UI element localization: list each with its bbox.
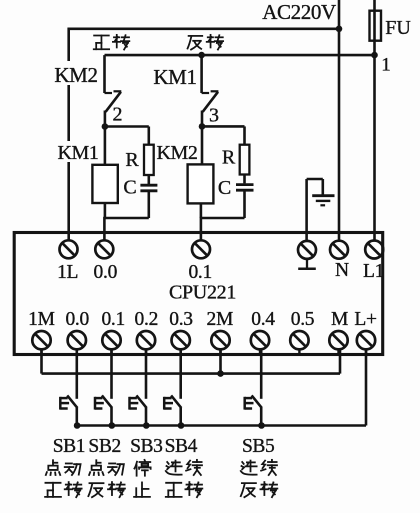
label 止 (stop) under SB3 bbox=[134, 482, 150, 496]
terminal 1L bbox=[60, 240, 78, 258]
wire: drop to output terminal 0.1 bbox=[200, 217, 203, 241]
wire: coil KM1 top lead bbox=[104, 127, 107, 166]
fuse FU bbox=[373, 0, 376, 241]
wire: branch 2 bottom bus bbox=[104, 217, 148, 220]
node: SB4 junction on button bus bbox=[178, 422, 185, 429]
wire: PE bracket drop bbox=[321, 179, 324, 195]
svg-text:SB4: SB4 bbox=[165, 436, 198, 457]
wire: R to C lead bbox=[243, 175, 246, 184]
node: 2M junction on common bus bbox=[219, 349, 222, 374]
svg-text:0.1: 0.1 bbox=[188, 262, 211, 283]
NC contact KM1 (reverse interlock) bbox=[200, 55, 203, 93]
svg-text:KM1: KM1 bbox=[57, 142, 98, 164]
label 正转 (forward) under SB1 bbox=[45, 483, 61, 497]
svg-text:R: R bbox=[125, 149, 139, 171]
svg-text:0.1: 0.1 bbox=[101, 309, 124, 330]
capacitor C (snubber) bottom plate bbox=[140, 189, 157, 192]
ground (earth) symbol bbox=[312, 194, 334, 197]
wire: 1M drop to common bus bbox=[40, 349, 43, 374]
svg-text:L1: L1 bbox=[363, 261, 384, 282]
wire: PE riser bbox=[305, 179, 308, 241]
wire: drop to output terminal 0.0 bbox=[103, 217, 106, 241]
contactor coil KM1 bbox=[92, 165, 117, 203]
resistor R (snubber) bbox=[144, 145, 154, 175]
svg-text:1M: 1M bbox=[28, 309, 55, 330]
capacitor C (snubber) top plate bbox=[140, 184, 157, 187]
terminal N bbox=[330, 241, 348, 259]
terminal 0.1 (output) bbox=[192, 240, 210, 258]
wire: C bottom lead bbox=[148, 191, 151, 218]
wire: horizontal neutral line to 1L bbox=[68, 27, 340, 30]
svg-text:KM2: KM2 bbox=[156, 142, 197, 164]
svg-text:SB5: SB5 bbox=[242, 436, 274, 457]
svg-text:R: R bbox=[222, 147, 236, 169]
svg-text:SB2: SB2 bbox=[88, 436, 120, 457]
node: junction neutral / 1L feed bbox=[336, 26, 343, 33]
wire: junction to RC branch bbox=[202, 125, 245, 128]
label 正转 (forward) under SB4 bbox=[166, 483, 182, 497]
svg-text:CPU221: CPU221 bbox=[169, 282, 236, 304]
wire: branch 3 bottom bus bbox=[201, 217, 245, 220]
push button SB1 bbox=[76, 349, 79, 399]
wire: R lead down bbox=[243, 126, 246, 144]
wire: junction to RC branch bbox=[105, 125, 149, 128]
wire: neutral supply drop from top bbox=[338, 0, 341, 241]
wire: R lead down bbox=[148, 127, 151, 145]
node: junction phase line bbox=[371, 52, 378, 59]
svg-text:0.0: 0.0 bbox=[94, 262, 117, 283]
label 正转 (forward) bbox=[94, 36, 109, 50]
node: SB2 junction on button bus bbox=[109, 422, 116, 429]
svg-text:M: M bbox=[331, 309, 348, 330]
wire: horizontal phase line bbox=[105, 54, 375, 57]
svg-text:3: 3 bbox=[209, 105, 219, 127]
push button SB2 bbox=[110, 349, 113, 399]
wire: R to C lead bbox=[148, 175, 151, 184]
node: junction phase / branch 3 bbox=[198, 52, 205, 59]
svg-text:1: 1 bbox=[381, 55, 391, 76]
svg-text:SB1: SB1 bbox=[53, 436, 85, 457]
label 反转 (reverse) under SB5 bbox=[241, 483, 256, 497]
svg-text:0.5: 0.5 bbox=[291, 309, 314, 330]
svg-text:SB3: SB3 bbox=[130, 436, 162, 457]
wire: L+ drop to button bus bbox=[365, 349, 368, 426]
svg-text:0.4: 0.4 bbox=[251, 309, 275, 330]
wire: coil KM2 top lead bbox=[201, 126, 204, 164]
push button SB4 bbox=[179, 349, 182, 399]
svg-text:C: C bbox=[123, 177, 136, 199]
svg-text:FU: FU bbox=[385, 17, 411, 39]
wire: coil KM2 bottom lead bbox=[200, 203, 203, 218]
wire: PE bracket top bbox=[307, 178, 323, 181]
node: contact 3 output junction bbox=[199, 123, 206, 130]
node: SB3 junction on button bus bbox=[143, 422, 150, 429]
label 停 (stop) under SB3 bbox=[134, 460, 150, 476]
terminal L1 bbox=[365, 241, 383, 259]
label KM1 (coil) bbox=[55, 141, 101, 162]
svg-text:2M: 2M bbox=[207, 309, 234, 330]
label 反转 (reverse) bbox=[188, 36, 203, 50]
label 连续 (continuous) under SB4 bbox=[166, 461, 182, 475]
label 点动 (jog) under SB1 bbox=[46, 460, 60, 475]
wire: 1L vertical feed (left frame) bbox=[67, 28, 70, 241]
contactor coil KM2 bbox=[188, 164, 214, 203]
wire: coil KM1 bottom lead bbox=[104, 203, 107, 218]
NC contact KM2 (forward interlock) bbox=[103, 55, 106, 93]
resistor R (snubber 2) bbox=[240, 145, 250, 175]
svg-text:0.3: 0.3 bbox=[169, 309, 192, 330]
node: SB5 junction on button bus bbox=[258, 422, 265, 429]
wire: M drop to common bus bbox=[339, 349, 342, 374]
terminal PE bbox=[298, 241, 316, 259]
svg-text:0.2: 0.2 bbox=[135, 309, 158, 330]
wire: C bottom lead bbox=[243, 190, 246, 218]
svg-text:AC220V: AC220V bbox=[262, 0, 336, 24]
svg-text:2: 2 bbox=[113, 104, 123, 126]
svg-text:0.0: 0.0 bbox=[65, 309, 88, 330]
label 反转 (reverse) under SB2 bbox=[88, 483, 103, 497]
label 连续 (continuous) under SB5 bbox=[241, 461, 257, 475]
capacitor C (snubber 2) top plate bbox=[236, 183, 254, 186]
capacitor C (snubber 2) bottom plate bbox=[236, 189, 254, 192]
push button SB3 bbox=[145, 349, 148, 399]
node: contact 2 output junction bbox=[102, 123, 109, 130]
wire: common bus (1M-2M-M) bbox=[42, 372, 341, 375]
svg-text:KM2: KM2 bbox=[54, 63, 97, 87]
terminal 0.0 (output) bbox=[95, 240, 113, 258]
svg-text:1L: 1L bbox=[57, 262, 78, 283]
svg-text:KM1: KM1 bbox=[153, 65, 196, 89]
label 点动 (jog) under SB2 bbox=[89, 460, 103, 475]
label KM2 (interlock contact) bbox=[52, 61, 100, 85]
wire: button bus (to L+) bbox=[77, 424, 366, 427]
PLC CPU221 enclosure box bbox=[14, 233, 383, 355]
svg-text:C: C bbox=[218, 177, 231, 199]
PE terminal mark bbox=[306, 258, 308, 267]
svg-text:L+: L+ bbox=[354, 309, 377, 330]
node: SB1 junction on button bus bbox=[74, 422, 81, 429]
svg-text:N: N bbox=[335, 260, 349, 281]
push button SB5 bbox=[260, 349, 263, 399]
